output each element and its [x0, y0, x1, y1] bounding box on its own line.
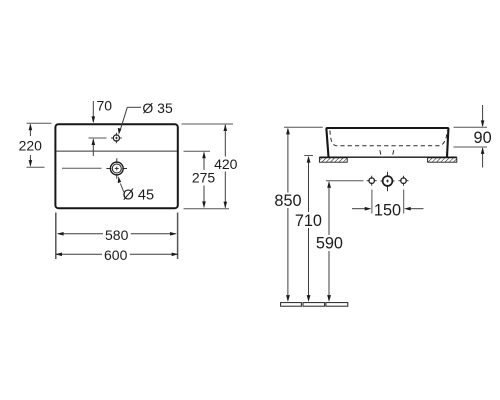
floor segment 2	[303, 303, 325, 307]
floor segment 1	[281, 303, 302, 307]
countertop hatch right	[428, 158, 457, 162]
dimension 600	[55, 247, 178, 263]
extension line below right hole	[403, 190, 405, 214]
svg-text:580: 580	[105, 227, 129, 243]
svg-text:420: 420	[214, 156, 238, 172]
extension line below left hole	[371, 190, 373, 214]
extension line 710 top	[304, 155, 313, 157]
svg-text:Ø 45: Ø 45	[123, 188, 154, 204]
svg-text:Ø 35: Ø 35	[142, 100, 173, 116]
faucet hole center	[381, 172, 395, 191]
svg-text:850: 850	[274, 192, 301, 210]
dimension 850	[274, 128, 301, 302]
svg-text:590: 590	[316, 235, 343, 253]
extension line 850 top	[284, 126, 323, 128]
svg-text:710: 710	[295, 212, 322, 230]
dimension 220	[19, 123, 52, 167]
svg-text:220: 220	[19, 138, 43, 154]
right extension line 580/600	[177, 213, 179, 260]
svg-text:70: 70	[97, 97, 113, 113]
dimension 590	[316, 181, 343, 302]
drain dashed marks	[379, 150, 382, 154]
faucet holes centerline	[326, 180, 364, 182]
basin outline top view	[55, 124, 177, 208]
faucet hole centerline	[89, 137, 107, 139]
countertop hatch left	[319, 158, 347, 162]
svg-text:600: 600	[104, 247, 128, 263]
dimension 70	[92, 97, 113, 156]
left extension line 580/600	[55, 213, 57, 260]
countertop surface line	[319, 156, 457, 158]
mounting hole right	[399, 176, 409, 186]
dimension 580	[57, 227, 177, 243]
dimension 420	[182, 124, 238, 208]
floor segment 3	[326, 303, 348, 307]
dimension 90	[454, 105, 492, 168]
basin outline front view	[326, 128, 448, 157]
basin inner rear edge line	[56, 150, 177, 152]
bottom extension line shared 420/275	[184, 208, 230, 210]
basin inner bowl dashed outline	[330, 131, 447, 146]
drain centerline	[62, 167, 102, 169]
label Ø 35 with leader	[118, 100, 173, 135]
dimension 710	[295, 156, 322, 302]
dimension 150	[352, 202, 424, 220]
drain hole Ø45	[106, 158, 127, 178]
dimension 275	[184, 151, 216, 208]
svg-text:275: 275	[192, 170, 216, 186]
svg-text:150: 150	[374, 202, 401, 220]
svg-text:90: 90	[474, 129, 492, 147]
faucet hole Ø35	[111, 133, 122, 143]
label Ø 45 with leader	[118, 176, 154, 203]
mounting hole left	[367, 176, 377, 186]
